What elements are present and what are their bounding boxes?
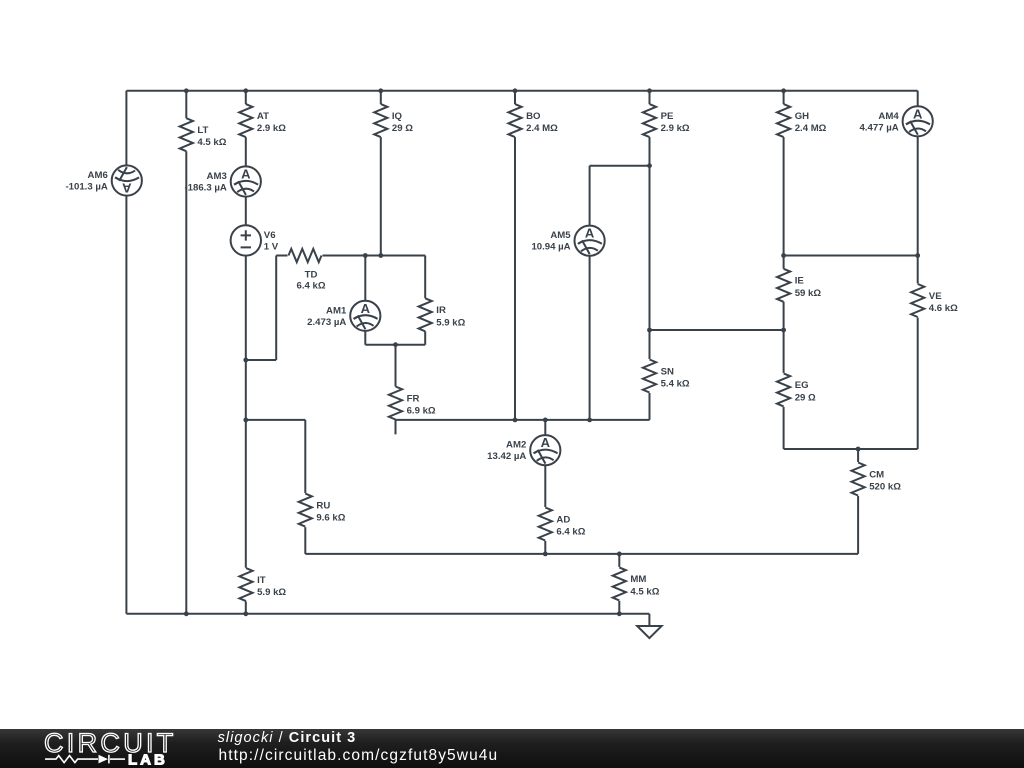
svg-text:GH: GH [795,111,809,122]
svg-text:FR: FR [407,393,420,404]
svg-text:IR: IR [436,305,446,316]
svg-text:AM1: AM1 [326,305,347,316]
svg-text:LT: LT [197,125,208,136]
svg-text:2.473 µA: 2.473 µA [307,317,346,328]
svg-text:2.9 kΩ: 2.9 kΩ [661,123,690,134]
svg-text:EG: EG [795,380,809,391]
svg-text:29 Ω: 29 Ω [392,123,413,134]
svg-text:RU: RU [316,500,330,511]
svg-text:MM: MM [630,574,646,585]
svg-text:2.4 MΩ: 2.4 MΩ [795,123,827,134]
svg-text:AM3: AM3 [207,171,227,182]
svg-text:-186.3 µA: -186.3 µA [184,183,226,194]
svg-text:520 kΩ: 520 kΩ [869,482,901,493]
svg-text:BO: BO [526,111,541,122]
svg-text:4.5 kΩ: 4.5 kΩ [630,586,659,597]
svg-text:VE: VE [929,291,942,302]
svg-text:AM5: AM5 [550,230,571,241]
svg-text:5.4 kΩ: 5.4 kΩ [661,379,690,390]
svg-text:IT: IT [257,575,266,586]
svg-text:6.9 kΩ: 6.9 kΩ [407,406,436,417]
svg-text:59 kΩ: 59 kΩ [795,288,822,299]
svg-text:AM4: AM4 [878,111,899,122]
svg-text:4.6 kΩ: 4.6 kΩ [929,303,958,314]
svg-text:AM6: AM6 [88,170,108,181]
svg-text:10.94 µA: 10.94 µA [531,242,570,253]
svg-text:SN: SN [661,366,674,377]
svg-text:AD: AD [556,514,570,525]
svg-text:PE: PE [661,111,674,122]
svg-text:2.4 MΩ: 2.4 MΩ [526,123,558,134]
svg-text:TD: TD [305,270,318,281]
svg-text:4.5 kΩ: 4.5 kΩ [197,137,226,148]
svg-text:6.4 kΩ: 6.4 kΩ [296,281,325,292]
svg-text:IE: IE [795,276,805,287]
svg-text:13.42 µA: 13.42 µA [487,451,526,462]
svg-text:9.6 kΩ: 9.6 kΩ [316,513,345,524]
svg-text:6.4 kΩ: 6.4 kΩ [556,527,585,538]
svg-text:-101.3 µA: -101.3 µA [65,182,107,193]
svg-text:4.477 µA: 4.477 µA [860,122,899,133]
svg-text:IQ: IQ [392,111,403,122]
svg-text:1 V: 1 V [264,241,279,252]
svg-text:AT: AT [257,111,269,122]
svg-text:5.9 kΩ: 5.9 kΩ [257,587,286,598]
svg-text:5.9 kΩ: 5.9 kΩ [436,317,465,328]
svg-text:AM2: AM2 [506,440,526,451]
svg-text:LAB: LAB [128,752,168,768]
svg-text:V6: V6 [264,230,276,241]
svg-text:2.9 kΩ: 2.9 kΩ [257,123,286,134]
svg-text:29 Ω: 29 Ω [795,392,816,403]
svg-text:CM: CM [869,469,884,480]
